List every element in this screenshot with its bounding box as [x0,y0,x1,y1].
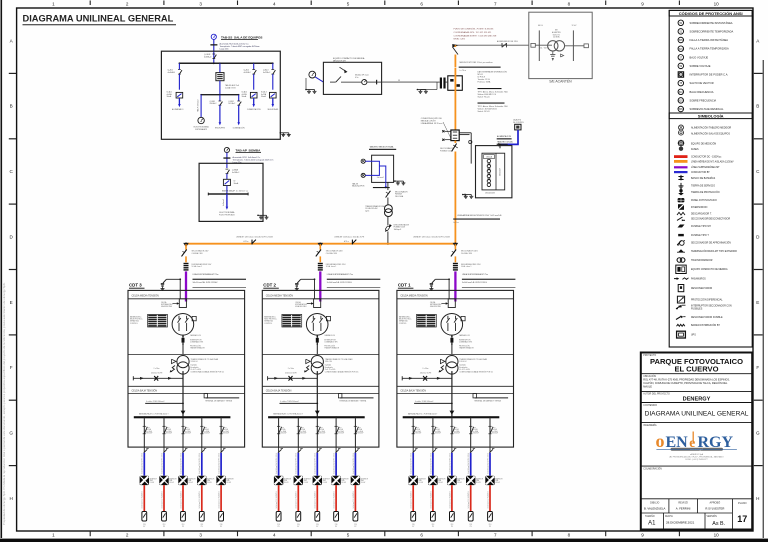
svg-text:7: 7 [494,2,497,7]
CDT 3 string feeder 3 breaker [182,416,184,418]
CDT 2 inverter 4 [331,476,340,485]
svg-text:Potencia: 3kVA: Potencia: 3kVA [478,81,492,84]
svg-text:FASES: FASES [691,148,699,151]
CDT 2 string 1 DC cable red [278,485,280,511]
symbol INVERSOR/ON [678,204,684,210]
svg-text:2x1x6mm2 CU H1Z2Z2-K: 2x1x6mm2 CU H1Z2Z2-K [142,491,144,508]
battery charger box [216,73,224,81]
svg-text:Q-x.x: Q-x.x [473,427,477,429]
S/E left terminal square [531,43,535,47]
svg-text:CONDUCTOR DC - 1500Vcc: CONDUCTOR DC - 1500Vcc [691,157,722,159]
svg-text:CDT 3: CDT 3 [129,283,142,288]
svg-text:INVERSOR: INVERSOR [457,478,464,480]
CDT 1 power transformer [446,356,458,368]
symbol DESCARGADOR T. [677,212,685,215]
CDT 2 divider trafo/BT [262,385,379,387]
CDT 3 protection relay panel [148,315,157,316]
CDT 2 transformer delta winding symbol [306,359,311,363]
svg-text:TABLERO MEDIDOR SSAA: TABLERO MEDIDOR SSAA [370,146,394,149]
svg-text:COORDENADAS GPS: 70 1 671 955: COORDENADAS GPS: 70 1 671 955 421 [454,31,493,34]
CDT 1 transformer delta winding symbol [440,359,445,363]
svg-text:2x1x6mm2 CU H1Z2Z2-K: 2x1x6mm2 CU H1Z2Z2-K [219,491,221,508]
svg-text:4 cables TOEN 240mm2: 4 cables TOEN 240mm2 [280,401,298,403]
svg-text:SECCIONADOR/DESCONECTADOR: SECCIONADOR/DESCONECTADOR [691,218,730,221]
svg-text:4x25A-C: 4x25A-C [263,71,271,74]
breaker Q-BBA [226,168,229,170]
CDT 1 string 2 disconnect below box [432,447,434,453]
symbol INTERRUPTOR SECCIONADOR CON|FUSIBLES [676,305,682,309]
CDT 1 inverter 4 [466,476,475,485]
svg-text:UBICACIÓN: UBICACIÓN [643,375,656,378]
svg-text:12 kV: 12 kV [572,25,578,27]
CDT 3 string 4 disconnect below box [201,447,203,453]
sheet outer right edge [762,60,764,538]
svg-text:110 kW: 110 kW [418,482,423,484]
CDT 1 LV cable bundle line [414,402,452,404]
svg-text:BAJA FRECUENCIA: BAJA FRECUENCIA [690,90,714,94]
CDT 3 string feeder 4 breaker [201,416,203,418]
CDT 2 string 1 disconnect below box [278,447,280,453]
S/E transformer ground [552,51,554,55]
svg-text:EL CUERVO: EL CUERVO [674,365,718,374]
wire to pump busbar [226,186,228,195]
svg-text:UPS: UPS [691,335,696,337]
CDT 2 LV auxiliary line [268,377,318,379]
svg-text:Switch: RC-01: Switch: RC-01 [478,110,490,113]
svg-text:4 cables TOEN 240mm2: 4 cables TOEN 240mm2 [415,401,433,403]
CDT 1 divider trafo/BT [397,385,514,387]
svg-text:BARRA ALFA-BT 4 x PLETINA 40x1: BARRA ALFA-BT 4 x PLETINA 40x10 T [139,412,169,415]
svg-text:PV: PV [432,526,434,528]
CDT 3 celda media tension header [128,298,245,300]
CDT 1 inverter 3 [447,476,456,485]
CDT 1 protection relay panel [417,315,426,316]
svg-text:110 kW: 110 kW [361,482,366,484]
CDT 2 string 4 disconnect below box [335,447,337,453]
svg-text:S/E ACANTÉN: S/E ACANTÉN [549,79,572,84]
CDT 1 string 5 DC combiner box [488,512,493,522]
svg-text:30mA: 30mA [167,95,172,98]
svg-text:30mA: 30mA [242,95,247,98]
breaker Q-GEN TAB-SS [212,53,215,55]
CDT 3 string 3 AC cable blue [182,453,184,476]
svg-text:2x1x6mm2 CU H1Z2Z2-K: 2x1x6mm2 CU H1Z2Z2-K [296,491,298,508]
S/E right terminal square [584,44,588,48]
CDT 1 string 4 DC combiner box [468,512,473,522]
MT bus sectionalizer at x=352.4 [351,240,353,245]
svg-text:B. VALENZUELA: B. VALENZUELA [644,507,666,511]
CDT 3 string 2 DC combiner box [162,512,167,522]
svg-text:LÍNEA MT 12kV (bus) 3x50 AL X: LÍNEA MT 12kV (bus) 3x50 AL XLPE [334,236,365,239]
CDT 3 string 5 disconnect below box [220,447,222,453]
svg-text:24kV 100A: 24kV 100A [395,195,404,198]
svg-text:4: 4 [273,532,276,537]
svg-text:28.DICIEMBRE.2021: 28.DICIEMBRE.2021 [666,520,695,524]
ANSI code 27 [678,55,684,61]
celda medida MT instrument chain [487,159,491,163]
grid meter [309,71,316,78]
svg-text:BARRA ALFA-BT 4 x PLETINA 40x1: BARRA ALFA-BT 4 x PLETINA 40x10 T [408,412,438,415]
CDT 2 string feeder 1 breaker [278,416,280,418]
CDT 3 string 3 DC cable red [182,485,184,511]
svg-text:CALPÚN, COMUNA DE CUREPTO, PRO: CALPÚN, COMUNA DE CUREPTO, PROVINCIA DE … [643,382,728,385]
ANSI code 78 [678,80,684,86]
CDT 2 string 3 disconnect below box [316,447,318,453]
svg-text:E: E [756,300,759,305]
svg-text:3x1x50 mm2 AL XLPE 12/20kV: 3x1x50 mm2 AL XLPE 12/20kV [462,281,488,284]
CDT 3 string feeder 2 breaker [163,416,165,418]
svg-text:21S: 21S [297,524,300,526]
breaker sub drop 1 [219,95,221,101]
svg-text:CELDA BAJA TENSIÓN: CELDA BAJA TENSIÓN [132,390,158,393]
svg-text:3: 3 [199,2,202,7]
TAB-SS main busbar [179,62,272,64]
svg-text:NSX250F: NSX250F [319,433,325,435]
svg-text:Q-x.x: Q-x.x [435,427,439,429]
CDT 1 celda media tension header [397,298,514,300]
svg-text:24 MVA: 24 MVA [553,36,560,39]
CDT 1 string 5 DC cable red [489,485,491,511]
CDT 1 entry surge arrester with ground [435,278,449,280]
celda medida MT inner cabinet [482,153,505,190]
CDT 1 divider MT/trafo [397,353,514,355]
svg-text:110 kW: 110 kW [341,482,346,484]
svg-text:5: 5 [347,532,350,537]
svg-text:CELDA BAJA TENSIÓN: CELDA BAJA TENSIÓN [400,390,426,393]
svg-text:4x32A-C: 4x32A-C [244,71,252,74]
svg-text:INVERSOR: INVERSOR [438,478,445,480]
svg-text:AV. PROVIDENCIA 1208, OF.207 -: AV. PROVIDENCIA 1208, OF.207 - PROVIDENC… [669,456,724,459]
svg-text:Q-x.x: Q-x.x [281,427,285,429]
svg-text:110 kW: 110 kW [150,482,155,484]
svg-text:Q-x.x: Q-x.x [492,427,496,429]
CDT 1 tap junction on MT bus [454,243,456,245]
symbol LÍNEA AÉREA DE MT. AISLADA 12/20kV [674,160,688,163]
svg-text:SEGURIDAD: SEGURIDAD [267,108,278,111]
CDT 2 divider MT/trafo [262,353,379,355]
CDT 3 string 1 DC combiner box [142,512,147,522]
svg-text:CONDUCTOR BT: CONDUCTOR BT [691,172,710,174]
CDT 1 string 5 disconnect below box [489,447,491,453]
CDT 3 power transformer [177,356,189,368]
CDT 3 string 2 AC cable blue [163,453,165,476]
svg-text:10 kA clase 1: 10 kA clase 1 [326,265,337,268]
CDT 3 LV cable bundle line [145,402,183,404]
svg-text:L= 70 m: L= 70 m [460,70,467,72]
CDT 1 string 1 disconnect below box [412,447,414,453]
legend ANSI codes box [669,10,752,347]
CDT 3 MT entry cell [179,299,186,308]
svg-text:DENERGY: DENERGY [683,397,711,403]
svg-text:NSX250F: NSX250F [492,433,498,435]
SSAA tablero medidor box [372,155,394,182]
symbol EQUIPO DE MEDICIÓN [678,141,683,146]
ANSI code 59 [678,63,684,69]
CDT 1 string 3 DC combiner box [450,512,455,522]
CDT 1 main LV feeder wire [451,371,453,416]
svg-text:H: H [10,496,13,501]
RCD ID-AL1 [176,92,183,98]
SSAA box ground cluster [395,180,404,182]
TAB-SS cabinet box [161,51,280,139]
svg-text:CLIMATIZACIÓN: CLIMATIZACIÓN [247,108,261,111]
symbol FASES [679,147,683,151]
CDT 3 string 5 DC combiner box [219,512,224,522]
symbol PASAMUROS [674,278,679,280]
CDT 1 transformer earthing zigzag [440,366,444,372]
CDT 1 string 4 disconnect below box [470,447,472,453]
CDT 3 string 4 DC cable red [201,485,203,511]
svg-text:450mm2 XLPE: 450mm2 XLPE [285,372,297,374]
orange feeder mid segment [454,68,456,130]
CDT 3 divider MT/trafo [128,353,245,355]
svg-text:INVERSOR: INVERSOR [476,478,483,480]
svg-text:2x1x6mm2 CU H1Z2Z2-K: 2x1x6mm2 CU H1Z2Z2-K [449,491,451,508]
svg-text:SOBREVOLTAJE RESIDUAL: SOBREVOLTAJE RESIDUAL [690,107,724,111]
CDT 1 string 1 DC combiner box [411,512,416,522]
svg-text:SECCIONADOR DE APROXIMACIÓN: SECCIONADOR DE APROXIMACIÓN [691,242,731,245]
svg-text:21S: 21S [277,524,280,526]
svg-text:PV: PV [278,526,280,528]
CDT 3 string 3 DC combiner box [181,512,186,522]
svg-text:SOBRE VOLTAJE: SOBRE VOLTAJE [690,64,711,68]
svg-text:NSX250F: NSX250F [415,433,421,435]
feeder line switch box on pole [451,130,459,141]
pump motor meter [198,117,204,123]
svg-text:2: 2 [126,2,129,7]
breaker Q-AL3 [272,63,274,69]
svg-text:Q-x.x: Q-x.x [357,427,361,429]
svg-text:DIBUJO: DIBUJO [650,501,659,504]
svg-text:INVERSOR: INVERSOR [341,478,348,480]
CDT 1 inverter 2 [428,476,437,485]
svg-text:CELDA MEDIA TENSIÓN: CELDA MEDIA TENSIÓN [266,295,293,298]
S/E delta symbol [561,54,564,57]
svg-text:PV: PV [412,526,414,528]
svg-text:21S: 21S [469,524,472,526]
svg-text:LÍNEA AÉREA 3F 35 mm: LÍNEA AÉREA 3F 35 mm [421,122,443,125]
svg-text:21S: 21S [200,524,203,526]
symbol ALIMENTACIÓN SALA DE EQUIPOS [679,130,684,135]
breaker Q-AL1 [178,69,181,71]
pole mounted recloser cluster [437,76,462,91]
svg-text:10: 10 [714,2,720,7]
orange feeder upper segment [454,55,456,68]
svg-text:12/0.4 kV: 12/0.4 kV [325,361,333,363]
CDT 3 LV auxiliary line [133,377,183,379]
svg-text:PV: PV [489,526,491,528]
svg-text:TERMINAL DE BARRAS Y TIERRA: TERMINAL DE BARRAS Y TIERRA [205,400,233,403]
svg-text:51N: 51N [679,49,684,51]
metering box internal meter [362,80,367,85]
svg-text:INVERSOR: INVERSOR [361,478,368,480]
svg-text:2x1x6mm2 CU H1Z2Z2-K: 2x1x6mm2 CU H1Z2Z2-K [315,491,317,508]
svg-text:PV: PV [316,526,318,528]
svg-text:FUSIBLE 12kV: FUSIBLE 12kV [440,150,453,152]
svg-text:2x6 mm2: 2x6 mm2 [377,177,384,179]
svg-text:INVERSOR: INVERSOR [226,478,233,480]
svg-text:10: 10 [714,532,720,537]
symbol SECCIONADOR DE APROXIMACIÓN [680,241,685,246]
svg-text:BARRA TAB-AP 4 x 16mm2 Cu: BARRA TAB-AP 4 x 16mm2 Cu [222,190,248,193]
CDT 2 string 3 DC combiner box [315,512,320,522]
bottom black strip [0,539,768,542]
CDT 3 inverter 3 [178,476,187,485]
breaker sub drop 2 [238,95,240,101]
svg-text:MEDIDOR MT: MEDIDOR MT [333,61,347,63]
svg-text:PV: PV [451,526,453,528]
svg-text:POZO PROFUNDO: POZO PROFUNDO [219,215,235,217]
MT bus sectionalizer at x=252.0 [251,240,253,245]
svg-text:PV: PV [335,526,337,528]
CDT 2 main LV feeder wire [316,371,318,416]
svg-text:7: 7 [494,532,497,537]
legend SIMBOLOGIA header [669,113,752,119]
CDT 2 entry surge arrester with ground [301,278,315,280]
svg-text:DE CONTROL: DE CONTROL [513,122,524,124]
CDT 1 inverter 1 [409,476,418,485]
svg-text:INTERRUPTOR: INTERRUPTOR [459,339,471,341]
svg-text:EQUIPO COMPACTO DE MEDIDA: EQUIPO COMPACTO DE MEDIDA [333,57,365,60]
wire RTU to medida cell blue [500,130,518,145]
svg-text:INVERSOR: INVERSOR [169,478,176,480]
svg-text:CONTROL: CONTROL [399,323,407,325]
CDT 2 string 3 DC cable red [316,485,318,511]
legend header CODIGOS DE PROTECCION ANSI [669,10,752,16]
svg-text:Dyn5: Dyn5 [365,210,369,212]
svg-text:A. FERRINI: A. FERRINI [676,507,691,511]
svg-text:PV: PV [182,526,184,528]
svg-text:110 kW: 110 kW [476,482,481,484]
svg-text:2x1x6mm2 CU H1Z2Z2-K: 2x1x6mm2 CU H1Z2Z2-K [353,491,355,508]
grid meter ground cluster [305,78,307,90]
svg-text:LÍNEA MT 12kV (bus) 3x50 AL X: LÍNEA MT 12kV (bus) 3x50 AL XLPE 12/20kV [413,236,451,239]
CDT 2 transformer earthing zigzag [306,366,310,372]
CDT 1 LV auxiliary line [402,377,452,379]
svg-text:TABLERO CELDA: TABLERO CELDA [497,141,513,144]
wire TAB-SS feeder drop [213,39,215,63]
svg-text:CONEXIONADO A BAJA TENSIÓN POR: CONEXIONADO A BAJA TENSIÓN POR 5m [325,371,359,374]
wire grid meter to metering box [315,77,323,82]
CDT 3 string 5 DC cable red [220,485,222,511]
svg-text:Largo 25m: Largo 25m [220,48,229,51]
svg-text:21S: 21S [143,524,146,526]
svg-text:PV: PV [470,526,472,528]
svg-text:INVERSOR: INVERSOR [284,478,291,480]
svg-text:G: G [9,431,13,436]
CDT 1 terminal de barras [473,394,477,398]
svg-text:8: 8 [568,532,571,537]
SSAA lower wire [387,217,389,225]
svg-text:INVERSOR: INVERSOR [323,478,330,480]
svg-text:2x1x6mm2 CU H1Z2Z2-K: 2x1x6mm2 CU H1Z2Z2-K [199,491,201,508]
svg-text:NSX250F: NSX250F [357,433,363,435]
svg-text:TAB-AP BOMBA: TAB-AP BOMBA [236,149,262,153]
SSAA internal blue wiring [365,161,379,175]
wire feeder B to sub bus [219,81,221,95]
svg-text:LÍNEA MT 12kV (bus) 3x50 AL X: LÍNEA MT 12kV (bus) 3x50 AL XLPE 12/20kV [236,236,274,239]
svg-text:CONEXIONADO A BAJA TENSIÓN POR: CONEXIONADO A BAJA TENSIÓN POR 5m [459,371,493,374]
wire feeder box to medida MT cell [459,132,471,134]
svg-text:NSX250F: NSX250F [281,433,287,435]
svg-text:CELDA BAJA TENSIÓN: CELDA BAJA TENSIÓN [266,390,292,393]
svg-text:110 kW: 110 kW [438,482,443,484]
svg-text:INVERSOR: INVERSOR [495,478,502,480]
svg-text:C4-630A / SF6: C4-630A / SF6 [326,252,337,255]
svg-text:As B.: As B. [712,521,725,527]
CDT 2 string 5 DC combiner box [353,512,358,522]
pole ground cluster [421,89,437,91]
pump feeder arrow [226,194,228,207]
svg-text:2x1x6mm2 CU H1Z2Z2-K: 2x1x6mm2 CU H1Z2Z2-K [161,491,163,508]
CDT 3 inverter 4 [197,476,206,485]
svg-text:ALIMENTADOR S/E 12kV: ALIMENTADOR S/E 12kV [497,40,519,43]
symbol BARRA DISTRIBUCIÓN BT [677,324,685,326]
CDT 2 MT fuse [316,335,318,354]
svg-text:4x6mm2: 4x6mm2 [223,199,225,206]
svg-text:21S: 21S [182,524,185,526]
svg-text:TIERRA DE SERVICIO: TIERRA DE SERVICIO [691,185,715,188]
symbol DESCONECTADOR [678,285,684,292]
svg-text:6: 6 [420,2,423,7]
svg-text:30mA: 30mA [261,95,266,98]
svg-text:Q-x.x: Q-x.x [146,427,150,429]
svg-text:DIAGRAMA UNILINEAL GENERAL: DIAGRAMA UNILINEAL GENERAL [645,411,749,418]
arrow feeder A [178,98,180,105]
svg-text:ALIMENTACIÓN TABLERO MEDIDOR: ALIMENTACIÓN TABLERO MEDIDOR [691,126,732,129]
svg-text:PV: PV [163,526,165,528]
svg-text:2x1x6mm2 CU H1Z2Z2-K: 2x1x6mm2 CU H1Z2Z2-K [468,491,470,508]
svg-text:3x1x50 mm2 AL XLPE 12/20kV: 3x1x50 mm2 AL XLPE 12/20kV [327,281,353,284]
svg-text:Propiedad de oEnergy SpA. Proh: Propiedad de oEnergy SpA. Prohibida la r… [2,282,6,525]
symbol CONDUCTOR DC - 1500Vcc [674,155,688,158]
SSAA meter circle 2 [361,173,365,177]
svg-text:NSX250F: NSX250F [223,433,229,435]
svg-text:PROTECCIÓN DIFERENCIAL: PROTECCIÓN DIFERENCIAL [691,299,723,302]
svg-text:450mm2 XLPE: 450mm2 XLPE [151,372,163,374]
CDT 3 MT underground cable purple [185,271,187,301]
svg-text:2x1x6mm2 CU H1Z2Z2-K: 2x1x6mm2 CU H1Z2Z2-K [276,491,278,508]
svg-text:2: 2 [126,532,129,537]
CDT 3 MT fuse [182,335,184,354]
symbol TERMINACIÓN/MUFA MT TIPO EXTERIOR [678,249,684,252]
S/E right CT bar [572,30,574,61]
CDT 3 inverter 2 [159,476,168,485]
CDT 3 main LV feeder wire [182,371,184,416]
svg-text:CELDA MEDIA TENSIÓN: CELDA MEDIA TENSIÓN [132,295,159,298]
CDT 2 string 2 DC cable red [297,485,299,511]
title block approvals table [641,498,752,500]
svg-text:SIMBOLOGÍA: SIMBOLOGÍA [698,114,724,119]
svg-text:Q-x.x: Q-x.x [415,427,419,429]
svg-text:3x1x50 mm2 AL XLPE 12/20kV: 3x1x50 mm2 AL XLPE 12/20kV [193,281,219,284]
CDT 3 cabinet box [128,290,245,447]
svg-text:LÍNEA SUBTERRÁNEA MT 75m: LÍNEA SUBTERRÁNEA MT 75m [327,273,354,276]
CDT 2 inverter 5 [351,476,360,485]
svg-text:6: 6 [420,532,423,537]
svg-text:110 kW: 110 kW [323,482,328,484]
CDT 3 string 1 DC cable red [143,485,145,511]
svg-text:PV: PV [201,526,203,528]
CDT 2 string 5 disconnect below box [354,447,356,453]
svg-text:F: F [756,365,759,370]
CDT 1 string feeder 5 breaker [489,416,491,418]
svg-text:21S: 21S [163,524,166,526]
CDT 1 string 4 DC cable red [470,485,472,511]
svg-text:INTERRUPTOR: INTERRUPTOR [324,339,336,341]
CDT 3 divider trafo/BT [128,385,245,387]
svg-text:NSX250F: NSX250F [435,433,441,435]
